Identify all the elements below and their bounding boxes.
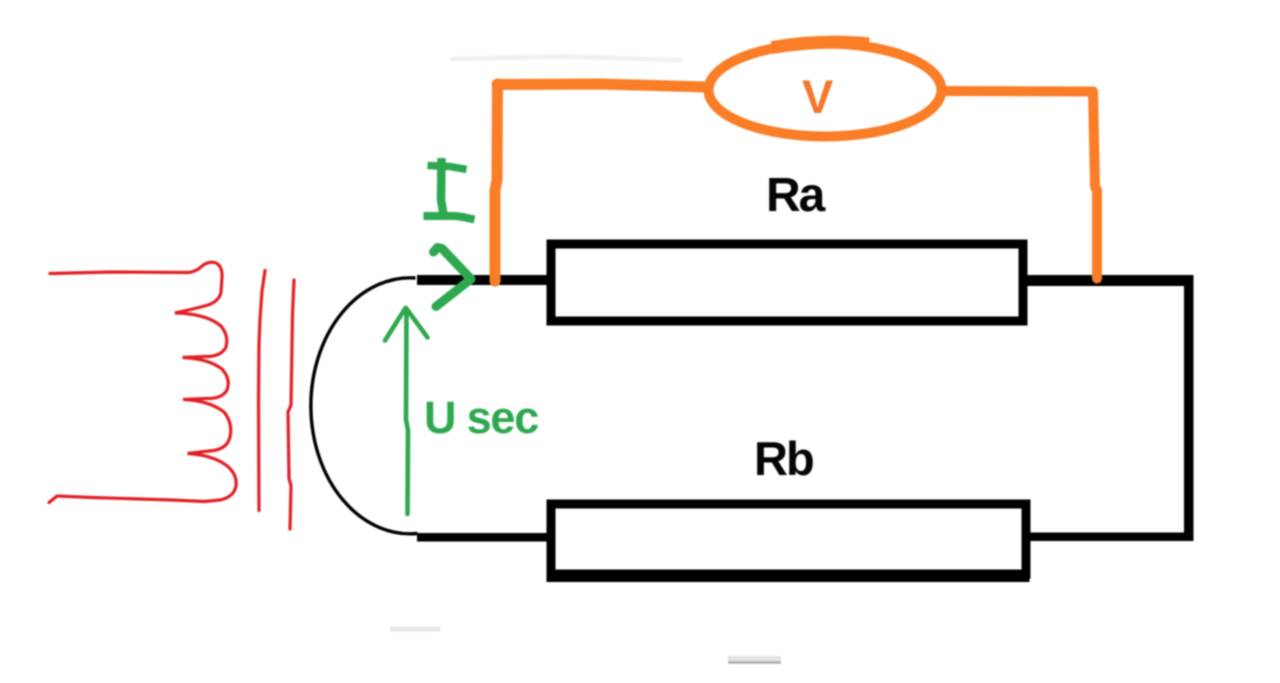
current direction arrow (green chevron) (434, 248, 472, 307)
svg-text:U sec: U sec (424, 392, 538, 443)
stray mark bottom-middle (728, 659, 781, 663)
label I (green current symbol) (424, 158, 475, 220)
voltage arrow U sec (green) (385, 308, 428, 514)
wire: orange voltmeter left lead (495, 84, 706, 281)
svg-text:Ra: Ra (766, 169, 826, 222)
wire: Ra to top-right corner (1023, 275, 1193, 286)
resistor Rb (551, 504, 1026, 574)
transformer primary winding L1 (red coil) (49, 262, 236, 502)
transformer core line 2 (red) (288, 280, 294, 529)
wire: top node from secondary to Ra (417, 275, 551, 285)
voltmeter V1 (orange ellipse) (709, 44, 942, 137)
stray mark bottom-left (390, 627, 440, 632)
resistor Ra (551, 244, 1023, 321)
transformer core line 1 (red) (259, 271, 266, 511)
wire: bottom node from Rb to secondary (417, 533, 551, 542)
transformer secondary winding (black arc) (311, 278, 418, 534)
wire: right vertical (1184, 275, 1194, 541)
wire: bottom-right from right vertical to Rb (1026, 533, 1193, 542)
svg-text:Rb: Rb (754, 432, 813, 485)
wire: orange voltmeter right lead (947, 91, 1097, 279)
svg-text:V: V (802, 70, 834, 123)
stray mark top (452, 57, 680, 61)
